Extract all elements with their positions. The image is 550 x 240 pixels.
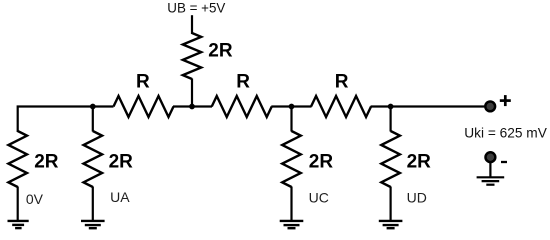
wire: node A down to 2R [92, 107, 94, 132]
wire: UB supply lead [191, 15, 193, 34]
svg-text:0V: 0V [26, 191, 44, 207]
svg-text:UA: UA [110, 189, 130, 205]
svg-text:2R: 2R [407, 151, 432, 172]
svg-text:UD: UD [407, 189, 427, 205]
wire: rail segment node B [173, 105, 212, 107]
ground (- terminal) [477, 177, 505, 184]
svg-text:UC: UC [309, 189, 329, 205]
terminal - (output) [486, 152, 496, 162]
wire: 2R resistor down to rail node B [191, 79, 193, 108]
ground (0V branch) [8, 221, 29, 228]
resistor 2R U_B branch [183, 33, 201, 79]
junction dot node B [189, 104, 195, 110]
junction dot node C [289, 104, 295, 110]
svg-text:2R: 2R [309, 151, 334, 172]
wire: UA branch to ground [92, 187, 94, 221]
resistor R1 (horizontal) [114, 96, 174, 117]
svg-text:Uki = 625 mV: Uki = 625 mV [464, 125, 547, 140]
minus sign [501, 161, 507, 163]
wire: 0V branch to ground [17, 187, 19, 221]
svg-text:2R: 2R [208, 41, 233, 62]
svg-text:UB = +5V: UB = +5V [167, 0, 225, 15]
resistor 2R branch UA [84, 131, 103, 187]
svg-text:R: R [136, 71, 150, 92]
wire: main rail segment left end to R1 [18, 107, 114, 133]
ground (UC branch) [280, 221, 304, 228]
svg-text:R: R [236, 71, 250, 92]
wire: node D down to 2R [390, 107, 392, 132]
plus sign [500, 95, 511, 106]
resistor 2R branch UC [282, 131, 301, 187]
wire: UD branch to ground [390, 187, 392, 221]
resistor 2R branch 0V [8, 131, 27, 187]
resistor R3 (horizontal) [311, 96, 371, 117]
wire: rail segment node D to + terminal [371, 105, 485, 107]
resistor R2 (horizontal) [212, 96, 272, 117]
ground (UD branch) [379, 221, 403, 228]
junction dot node A [90, 104, 96, 110]
terminal + (output) [485, 102, 495, 112]
wire: node C down to 2R [290, 107, 292, 132]
resistor 2R branch UD [381, 131, 400, 187]
wire: UC branch to ground [290, 187, 292, 221]
svg-text:R: R [335, 71, 349, 92]
wire: rail segment node C [271, 105, 311, 107]
svg-text:2R: 2R [34, 151, 59, 172]
wire: - terminal to ground [489, 162, 491, 177]
svg-text:2R: 2R [109, 151, 134, 172]
junction dot node D [388, 104, 394, 110]
ground (UA branch) [81, 221, 105, 228]
